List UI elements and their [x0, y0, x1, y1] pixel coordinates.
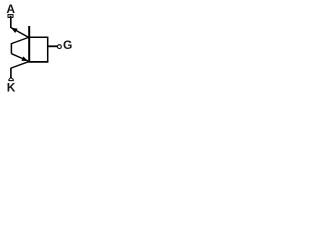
wire V2 cathode vertical: [10, 68, 12, 78]
svg-text:K: K: [7, 80, 16, 94]
box bottom line: [28, 61, 48, 63]
wire D4 diagonal from bar bottom to K side: [11, 62, 29, 68]
terminal K port (house shape): [9, 77, 13, 80]
svg-text:G: G: [63, 38, 72, 52]
wire D3 diagonal to bar bottom: [11, 54, 28, 61]
wire A vertical: [10, 18, 12, 28]
terminal A port box: [8, 15, 13, 18]
arrowhead on anode branch (points up-left toward A): [11, 28, 18, 33]
gate tap wire: [48, 45, 57, 47]
wire V1 left vertical segment: [10, 43, 12, 54]
box top line: [29, 36, 48, 38]
box right line: [47, 37, 49, 63]
wire D1 diagonal A to bar junction: [11, 28, 29, 38]
svg-text:A: A: [6, 2, 15, 16]
wire D2 diagonal junction to left vertex: [11, 37, 28, 43]
cathode bar vertical: [28, 26, 30, 62]
arrowhead into bar bottom (points down-right): [21, 56, 28, 61]
thyristor/GTO symbol with A, K, G terminals: [0, 0, 80, 98]
gate open-circle pin: [58, 45, 62, 49]
